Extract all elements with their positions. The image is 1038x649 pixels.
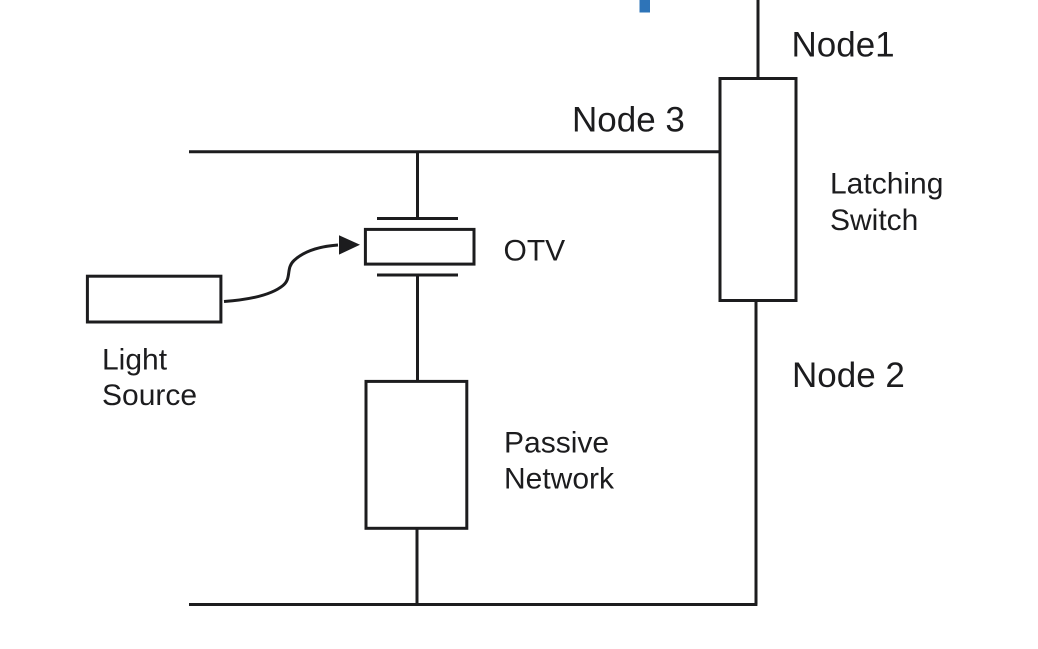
svg-text:OTV: OTV [504,235,566,268]
wire: node 3 horizontal bus [189,150,720,153]
wire: Node1 top lead [757,0,760,78]
svg-text:Switch: Switch [830,204,918,237]
wire: OTV upper lead [416,152,419,219]
wire: OTV lower lead [416,275,419,381]
wire: bottom bus [189,603,757,606]
latching switch body [720,79,796,301]
svg-text:Passive: Passive [504,426,609,459]
svg-text:Network: Network [504,462,615,495]
svg-text:Node 2: Node 2 [792,356,905,395]
svg-text:Node 3: Node 3 [572,101,685,140]
svg-text:Node1: Node1 [792,25,895,64]
wire: node 2 lead (switch to bottom bus) [755,300,758,605]
passive network body [366,381,467,528]
blue heading fragment (cropped descender of page title) [640,0,651,13]
svg-text:Latching: Latching [830,168,943,201]
OTV top electrode plate [377,217,458,220]
OTV body [365,229,474,264]
light beam arrow (curved) [224,245,338,302]
OTV bottom electrode plate [377,274,458,277]
svg-text:Light: Light [102,344,168,377]
svg-text:Source: Source [102,379,197,412]
light source body [87,276,221,322]
wire: passive network lower lead [416,528,419,604]
light beam arrowhead [339,235,360,254]
